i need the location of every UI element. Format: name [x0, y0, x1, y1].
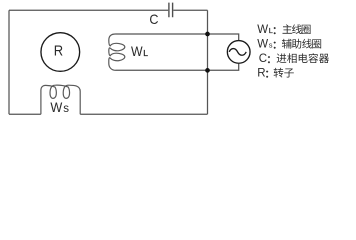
legend line 1 colon: [274, 27, 276, 34]
wire: outer frame left side: [8, 10, 10, 114]
svg-text:W: W: [257, 24, 268, 36]
legend line 2 label Ws: [257, 39, 272, 51]
wire: outer frame top, left of capacitor: [9, 9, 168, 11]
svg-text:s: s: [269, 41, 273, 50]
AC source sine wave: [229, 49, 246, 56]
label Ws: [50, 99, 69, 115]
legend line 4 colon: [266, 71, 268, 78]
wire: outer frame top, right of capacitor: [173, 9, 207, 11]
wire: main-winding loop top: [116, 34, 239, 40]
svg-text:C: C: [149, 11, 158, 27]
legend line 2 colon: [274, 42, 276, 49]
svg-text:L: L: [269, 26, 273, 35]
svg-text:W: W: [257, 39, 268, 51]
legend line 1 label WL: [257, 24, 272, 36]
svg-text:C: C: [259, 53, 267, 65]
wire: outer frame bottom, right of Ws: [80, 113, 207, 115]
wire: outer frame bottom, left of Ws: [9, 113, 41, 115]
wire: main-winding loop bottom: [116, 64, 239, 71]
legend line 3 colon: [268, 56, 270, 63]
inductor WL (main winding): [109, 34, 125, 70]
AC source circle: [227, 41, 250, 64]
legend line 2 text 辅助线圈: [282, 39, 321, 49]
svg-text:W: W: [50, 99, 63, 115]
svg-text:s: s: [63, 103, 69, 115]
svg-text:L: L: [143, 48, 148, 58]
inductor Ws (auxiliary winding): [41, 85, 80, 114]
wire: outer frame right side: [207, 10, 209, 114]
svg-text:R: R: [257, 68, 265, 80]
legend line 4 text 转子: [274, 68, 294, 78]
svg-text:R: R: [54, 43, 63, 59]
junction node top: [205, 32, 210, 37]
legend line 1 text 主线圈: [282, 24, 310, 34]
capacitor C plates: [169, 3, 173, 18]
svg-text:W: W: [131, 44, 143, 59]
label WL: [131, 44, 148, 59]
legend line 3 text 进相电容器: [277, 53, 329, 63]
junction node bottom: [205, 68, 210, 73]
rotor R circle: [41, 33, 80, 72]
